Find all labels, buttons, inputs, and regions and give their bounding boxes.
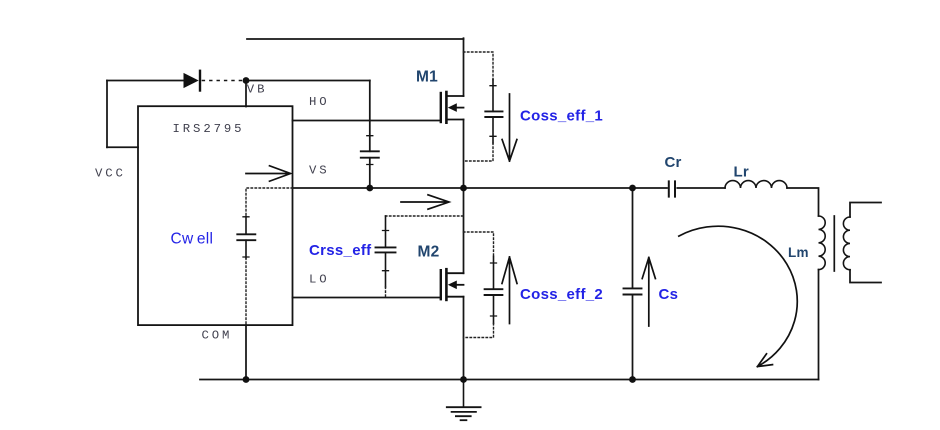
capacitor Cwell pin ticks (243, 217, 249, 257)
wire bottom COM rail (200, 379, 819, 381)
capacitor Cs plates (624, 288, 642, 294)
wire diode cathode to VB (dotted) (203, 80, 247, 82)
capacitor Coss_eff_2 bottom lead (493, 295, 495, 324)
wire Cs bottom lead (632, 295, 634, 380)
transistor M1 body arrow (448, 103, 464, 112)
wire secondary top lead (850, 203, 881, 218)
wire bootstrap cap bottom lead (369, 158, 371, 188)
transformer secondary winding (843, 217, 850, 270)
node Cs rail junction dot (629, 376, 636, 383)
svg-text:Cs: Cs (659, 286, 679, 303)
capacitor Coss_eff_1 pin ticks (490, 86, 496, 137)
capacitor C_bootstrap plates (361, 151, 379, 157)
wire VCC vertical (106, 81, 108, 148)
svg-text:Coss_eff_1: Coss_eff_1 (520, 108, 603, 125)
diode D_boot triangle (184, 73, 199, 88)
capacitor Crss_eff plates (376, 247, 396, 252)
wire VS net segment 3 (Lr to transformer corner) (787, 188, 819, 216)
capacitor Coss_eff_1 dotted top link (464, 52, 494, 80)
capacitor Cwell bottom lead (245, 240, 247, 258)
capacitor C_bootstrap pin ticks (367, 136, 373, 165)
svg-text:VCC: VCC (95, 166, 126, 180)
capacitor Cwell top lead (245, 217, 247, 235)
svg-text:M1: M1 (416, 68, 438, 85)
capacitor Coss_eff_1 bottom lead (492, 117, 494, 143)
capacitor Crss_eff pin ticks (383, 231, 389, 271)
capacitor Crss_eff bottom lead (385, 252, 387, 287)
capacitor Cwell plates (237, 234, 255, 240)
capacitor Crss_eff top lead (385, 216, 387, 247)
wire M1 drain column (463, 38, 465, 96)
wire M2 source column (463, 297, 465, 380)
node bootstrap/VS junction dot (366, 185, 373, 192)
arrow VS current toward M2 (401, 195, 449, 209)
arrow current up Coss_eff_2 (502, 257, 517, 324)
diode D_boot cathode bar (199, 71, 201, 91)
transformer core bar (833, 216, 835, 271)
inductor Lr (725, 181, 787, 188)
transistor M1 channel bar (445, 92, 448, 123)
arrow current up Cs (642, 258, 655, 327)
capacitor Crss_eff dotted bottom link (385, 287, 387, 298)
node COM rail junction dot (243, 376, 250, 383)
ground (447, 380, 481, 421)
node VS switch junction dot (460, 185, 467, 192)
wire M1 source / M2 drain column (463, 120, 465, 274)
capacitor Coss_eff_1 plates (485, 111, 502, 117)
wire HO net (293, 120, 441, 122)
transistor M2 body arrow (448, 281, 464, 290)
wire COM pin column (245, 325, 247, 380)
wire transformer primary bottom column (818, 270, 820, 380)
svg-text:Crss_eff: Crss_eff (309, 242, 372, 259)
svg-text:VS: VS (309, 164, 330, 178)
transistor M2 gate bar (440, 270, 442, 299)
capacitor Coss_eff_2 pin ticks (491, 263, 497, 316)
wire top rail (247, 38, 464, 40)
transistor M1 gate bar (440, 93, 442, 122)
transistor M1 drain stub (448, 95, 464, 97)
node VB junction dot (243, 77, 250, 84)
svg-text:Coss_eff_2: Coss_eff_2 (520, 286, 603, 303)
capacitor Coss_eff_2 dotted top link (464, 232, 494, 257)
wire VS net segment 2 (Cr to Lr) (677, 187, 725, 189)
arrow resonant current loop (679, 226, 797, 366)
svg-text:HO: HO (309, 95, 330, 109)
svg-text:Cw ell: Cw ell (171, 231, 214, 248)
svg-text:LO: LO (309, 273, 330, 287)
capacitor Coss_eff_1 top lead (492, 80, 494, 112)
svg-text:VB: VB (247, 83, 268, 97)
capacitor Crss_eff dotted top link (386, 215, 464, 217)
wire Cwell to COM dotted (245, 258, 247, 325)
transistor M1 source stub (448, 119, 464, 121)
transistor M2 source stub (448, 296, 464, 298)
arrow current down Coss_eff_1 (502, 94, 517, 161)
svg-text:Cr: Cr (665, 154, 682, 171)
svg-text:COM: COM (202, 328, 233, 342)
svg-text:Lm: Lm (788, 245, 809, 260)
node VS Cs junction dot (629, 185, 636, 192)
wire VB net (246, 80, 370, 82)
wire VS net segment 1 (293, 187, 668, 189)
op IC U1 IRS2795 box (138, 106, 293, 325)
svg-text:Lr: Lr (734, 163, 749, 180)
wire VB drop into IC (245, 81, 247, 107)
wire Cs top lead (632, 188, 634, 288)
wire VCC to IC pin (107, 146, 138, 148)
capacitor Coss_eff_2 plates (485, 289, 503, 295)
wire secondary bottom lead (850, 270, 881, 283)
node VS internal dotted link (246, 188, 293, 217)
svg-text:IRS2795: IRS2795 (173, 122, 245, 136)
capacitor Coss_eff_1 dotted bottom link (464, 143, 494, 161)
transistor M2 channel bar (445, 269, 448, 300)
node ground rail junction dot (460, 376, 467, 383)
wire diode anode (107, 80, 184, 82)
svg-text:M2: M2 (418, 244, 440, 261)
capacitor Coss_eff_2 top lead (493, 257, 495, 290)
arrow into VS pin (246, 166, 291, 181)
wire LO net (293, 297, 441, 299)
capacitor Cr plates (669, 181, 675, 196)
transistor M2 drain stub (448, 272, 464, 274)
capacitor Coss_eff_2 dotted bottom link (464, 324, 494, 338)
inductor Lm transformer primary winding (819, 216, 826, 270)
wire bootstrap cap top lead (369, 81, 371, 152)
